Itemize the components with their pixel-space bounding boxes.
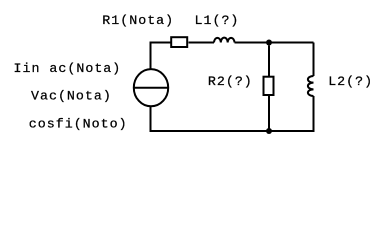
- wire: R2 down to node B: [268, 96, 270, 131]
- wire: L1 to node A: [235, 42, 270, 44]
- wire: top-right corner down to L2: [313, 43, 315, 77]
- resistor R2: [264, 77, 274, 95]
- node B (bottom junction): [266, 128, 272, 134]
- wire: L2 to bottom-right corner to node B: [269, 96, 314, 131]
- wire: R1 to L1: [189, 42, 215, 44]
- inductor L2: [308, 76, 314, 96]
- resistor R1: [171, 37, 187, 47]
- inductor L1: [214, 38, 235, 43]
- svg-text:Iin ac(Nota): Iin ac(Nota): [14, 61, 122, 76]
- wire: node B to bottom-left corner up to source: [151, 107, 270, 132]
- svg-text:cosfi(Noto): cosfi(Noto): [29, 117, 128, 132]
- ac source U1 bar: [134, 87, 168, 89]
- wire: node A down to R2: [268, 46, 270, 77]
- ac source U1 circle: [134, 69, 168, 106]
- svg-text:L2(?): L2(?): [328, 74, 373, 89]
- svg-text:L1(?): L1(?): [195, 13, 240, 28]
- svg-text:R2(?): R2(?): [208, 74, 253, 89]
- node A (top junction): [266, 40, 272, 46]
- wire: source top lead to R1: [151, 43, 171, 70]
- svg-text:R1(Nota): R1(Nota): [102, 13, 174, 28]
- wire: node A to top-right corner: [269, 42, 314, 44]
- svg-text:Vac(Nota): Vac(Nota): [31, 89, 112, 104]
